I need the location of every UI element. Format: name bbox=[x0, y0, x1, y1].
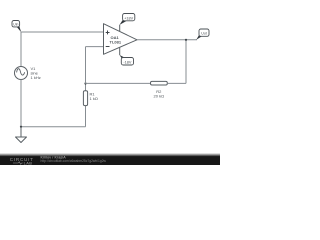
flag -18V bbox=[120, 55, 134, 65]
wire ground horizontal run to R1 bottom bbox=[21, 126, 86, 128]
wire R1 bottom lead bbox=[85, 106, 87, 127]
wire right rail feedback vertical bbox=[185, 40, 187, 84]
svg-text:LAB: LAB bbox=[24, 161, 33, 165]
resistor R2 bbox=[151, 81, 168, 98]
svg-text:20 kΩ: 20 kΩ bbox=[154, 94, 165, 99]
pin V+ supply bbox=[119, 25, 121, 32]
wire from node A to op-amp non-inverting input bbox=[21, 31, 104, 33]
op-amp OA1 TL081 bbox=[104, 24, 138, 55]
wire feedback node to R2 left bbox=[86, 82, 151, 84]
wire inverting input vertical bbox=[85, 47, 87, 84]
ground bbox=[16, 127, 27, 143]
svg-text:1 kHz: 1 kHz bbox=[31, 75, 41, 80]
flag Uut output label bbox=[196, 29, 209, 40]
pin V- supply bbox=[119, 48, 121, 56]
junction at ground node bbox=[20, 126, 22, 128]
flag +18V bbox=[120, 14, 135, 25]
watermark footer bar bbox=[0, 153, 220, 165]
svg-text:1 kΩ: 1 kΩ bbox=[90, 96, 98, 101]
wire inverting input horizontal bbox=[86, 46, 104, 48]
wire op-amp output bbox=[137, 39, 197, 41]
resistor R1 bbox=[83, 84, 97, 106]
svg-text:Uin: Uin bbox=[13, 23, 18, 27]
junction at output node bbox=[185, 39, 187, 41]
svg-text:-18V: -18V bbox=[123, 61, 131, 65]
svg-text:TL081: TL081 bbox=[110, 40, 122, 45]
CircuitLab logo bbox=[10, 157, 34, 166]
svg-text:Uut: Uut bbox=[201, 32, 207, 36]
flag Uin input label / node A bbox=[12, 21, 21, 33]
wire R2 right lead to right rail bbox=[167, 82, 186, 84]
svg-text:+18V: +18V bbox=[124, 16, 133, 20]
wire left rail from V1 bottom to ground junction bbox=[20, 80, 22, 127]
junction at R1 top / feedback node bbox=[84, 82, 86, 84]
voltage source V1 bbox=[15, 66, 41, 80]
svg-text:http://circuitlab.com/c6wabm25: http://circuitlab.com/c6wabm25c7g2wb/1g2… bbox=[41, 159, 107, 163]
wire left rail from node A down to V1 top bbox=[20, 32, 22, 67]
